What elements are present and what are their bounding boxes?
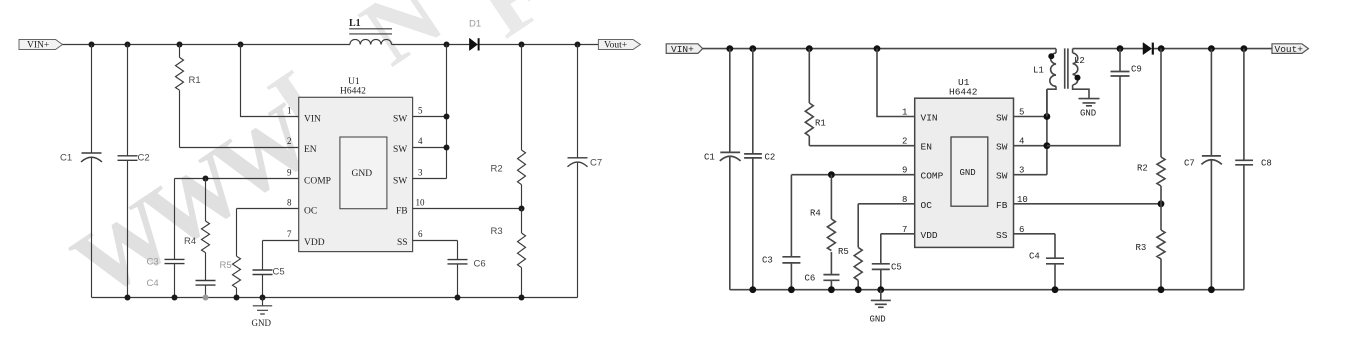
svg-text:SS: SS xyxy=(397,238,408,248)
svg-text:10: 10 xyxy=(416,198,426,208)
svg-text:R2: R2 xyxy=(491,164,503,175)
svg-text:C2: C2 xyxy=(765,153,776,163)
svg-text:SW: SW xyxy=(393,145,407,155)
transformer T1 primary L1 xyxy=(1033,49,1056,117)
capacitor C7 xyxy=(1184,49,1222,290)
node dots bottom rail xyxy=(125,295,525,301)
node dots bottom rail xyxy=(749,286,1214,293)
svg-text:C5: C5 xyxy=(891,263,902,273)
svg-text:EN: EN xyxy=(304,145,317,155)
svg-text:6: 6 xyxy=(418,229,423,239)
svg-text:C9: C9 xyxy=(1131,65,1142,75)
svg-text:SW: SW xyxy=(996,113,1008,124)
node SW4 xyxy=(444,145,450,151)
node COMP/R4 xyxy=(828,171,835,178)
wire FB xyxy=(413,208,522,210)
svg-text:8: 8 xyxy=(287,198,292,208)
svg-text:C8: C8 xyxy=(1261,159,1272,169)
svg-text:7: 7 xyxy=(287,229,292,239)
svg-text:D1: D1 xyxy=(469,19,481,30)
svg-text:5: 5 xyxy=(418,106,423,116)
node FB xyxy=(1158,200,1165,207)
svg-text:C6: C6 xyxy=(805,274,816,284)
capacitor C5 xyxy=(253,241,285,298)
wire OC xyxy=(237,208,299,210)
transformer core xyxy=(1065,48,1068,88)
ground xyxy=(252,298,273,329)
capacitor C1 xyxy=(60,45,102,298)
svg-text:R3: R3 xyxy=(1136,243,1147,253)
svg-text:C7: C7 xyxy=(590,158,602,169)
svg-text:4: 4 xyxy=(418,136,423,146)
svg-text:VIN: VIN xyxy=(921,113,938,124)
svg-text:FB: FB xyxy=(396,207,408,217)
inductor L1 xyxy=(349,18,392,45)
ground GND main xyxy=(870,290,891,325)
resistor R4 xyxy=(810,175,835,275)
svg-text:C4: C4 xyxy=(147,278,159,289)
resistor R4 xyxy=(184,179,210,281)
svg-text:C3: C3 xyxy=(147,257,159,268)
svg-text:2: 2 xyxy=(287,136,292,146)
svg-text:GND: GND xyxy=(352,169,373,179)
capacitor C8 xyxy=(1235,49,1272,290)
wire top rail xyxy=(703,48,1272,50)
svg-text:Vout+: Vout+ xyxy=(1275,44,1304,55)
svg-text:VIN+: VIN+ xyxy=(27,41,49,51)
resistor R2 xyxy=(491,45,526,209)
resistor R2 xyxy=(1137,49,1165,204)
capacitor C3 xyxy=(762,256,800,290)
svg-text:C7: C7 xyxy=(1184,159,1195,169)
diode xyxy=(1143,43,1153,55)
resistor R1 xyxy=(176,45,201,148)
wire bottom rail xyxy=(730,289,1244,291)
node COMP/R4 xyxy=(203,176,209,182)
svg-text:VDD: VDD xyxy=(921,230,938,241)
svg-text:8: 8 xyxy=(902,195,907,205)
terminal Vout+ xyxy=(1272,44,1308,55)
svg-text:OC: OC xyxy=(304,207,317,217)
capacitor C4 xyxy=(147,278,216,298)
transformer polarity dot primary xyxy=(1048,53,1054,59)
svg-text:L1: L1 xyxy=(349,18,361,29)
svg-text:C1: C1 xyxy=(704,153,715,163)
svg-text:C4: C4 xyxy=(1029,252,1040,262)
svg-text:GND: GND xyxy=(1080,109,1096,119)
svg-text:VIN: VIN xyxy=(304,115,321,125)
svg-text:9: 9 xyxy=(902,166,907,176)
wire SS xyxy=(413,240,458,242)
ground GND transformer xyxy=(1079,99,1100,119)
svg-text:R4: R4 xyxy=(810,209,821,219)
wire bottom rail xyxy=(92,297,578,299)
svg-text:R1: R1 xyxy=(815,119,826,129)
node SW5 xyxy=(1044,113,1051,120)
svg-text:C5: C5 xyxy=(273,267,285,278)
resistor R3 xyxy=(1136,204,1166,290)
svg-text:H6442: H6442 xyxy=(340,87,366,97)
svg-text:R5: R5 xyxy=(838,247,849,257)
wire VDD xyxy=(881,234,915,264)
svg-text:GND: GND xyxy=(252,318,272,328)
svg-text:SW: SW xyxy=(996,142,1008,153)
svg-text:OC: OC xyxy=(921,200,933,211)
transformer secondary L2 xyxy=(1073,49,1089,98)
svg-text:3: 3 xyxy=(418,168,423,178)
svg-text:C2: C2 xyxy=(138,153,150,164)
svg-text:H6442: H6442 xyxy=(949,87,978,98)
resistor R3 xyxy=(491,209,526,298)
wire EN xyxy=(809,145,914,147)
node FB xyxy=(519,206,525,212)
svg-text:R5: R5 xyxy=(220,260,232,271)
wire top rail xyxy=(63,44,599,46)
capacitor C4 xyxy=(1029,252,1064,290)
node SW5 xyxy=(444,114,450,120)
wire VIN pin xyxy=(241,45,299,117)
svg-text:COMP: COMP xyxy=(304,177,331,187)
op-amp U1 IC body xyxy=(299,77,413,252)
capacitor C7 xyxy=(568,45,603,298)
svg-text:SW: SW xyxy=(393,115,407,125)
wire VIN pin xyxy=(877,49,915,117)
wire OC xyxy=(858,203,915,205)
transformer polarity dot secondary xyxy=(1075,75,1081,81)
capacitor C6 xyxy=(448,241,486,298)
svg-text:COMP: COMP xyxy=(921,171,944,182)
svg-text:R1: R1 xyxy=(189,75,201,86)
capacitor C2 xyxy=(118,45,150,298)
capacitor C9 xyxy=(1047,49,1142,146)
svg-text:SS: SS xyxy=(996,230,1008,241)
resistor R5 xyxy=(838,204,862,290)
svg-text:C6: C6 xyxy=(474,259,486,270)
watermark blob xyxy=(370,104,390,122)
resistor R1 xyxy=(805,49,826,146)
node junction dots top rail xyxy=(89,42,581,48)
svg-text:GND: GND xyxy=(870,315,886,325)
svg-text:VIN+: VIN+ xyxy=(671,44,694,55)
svg-text:9: 9 xyxy=(287,168,292,178)
svg-text:EN: EN xyxy=(921,142,932,153)
svg-text:SW: SW xyxy=(393,177,407,187)
svg-text:Vout+: Vout+ xyxy=(604,41,627,51)
svg-text:U1: U1 xyxy=(348,77,360,87)
wire FB xyxy=(1014,203,1162,205)
svg-text:R2: R2 xyxy=(1137,164,1148,174)
node SW4 xyxy=(1044,142,1051,149)
svg-text:7: 7 xyxy=(902,225,907,235)
svg-text:VDD: VDD xyxy=(304,238,325,248)
IC U1 body xyxy=(915,77,1014,247)
terminal VIN+ xyxy=(19,40,63,51)
wire SS xyxy=(1014,234,1056,258)
wire EN to R1 xyxy=(180,147,299,149)
capacitor C3 xyxy=(147,257,185,298)
svg-text:C1: C1 xyxy=(60,153,72,164)
diode D1 xyxy=(469,19,481,51)
resistor R5 xyxy=(220,209,241,298)
svg-text:SW: SW xyxy=(996,171,1008,182)
wire SW bus xyxy=(1014,89,1047,175)
svg-text:R4: R4 xyxy=(184,236,196,247)
capacitor C2 xyxy=(744,49,775,290)
svg-text:C3: C3 xyxy=(762,256,773,266)
capacitor C5 xyxy=(872,263,902,290)
svg-text:FB: FB xyxy=(996,200,1008,211)
svg-text:L1: L1 xyxy=(1033,66,1044,76)
wire COMP xyxy=(791,175,914,257)
terminal Vout+ xyxy=(598,40,640,51)
svg-text:1: 1 xyxy=(287,106,292,116)
watermark xyxy=(54,0,562,318)
capacitor C6 xyxy=(805,274,840,290)
wire VDD xyxy=(263,240,299,242)
node dots top rail xyxy=(726,45,1247,52)
svg-text:GND: GND xyxy=(960,168,976,178)
capacitor C1 xyxy=(704,49,741,290)
wire SW bus xyxy=(413,45,447,179)
terminal VIN+ xyxy=(666,44,703,55)
wire COMP xyxy=(175,179,299,260)
svg-text:2: 2 xyxy=(902,137,907,147)
svg-text:1: 1 xyxy=(902,108,907,118)
svg-text:R3: R3 xyxy=(491,226,503,237)
